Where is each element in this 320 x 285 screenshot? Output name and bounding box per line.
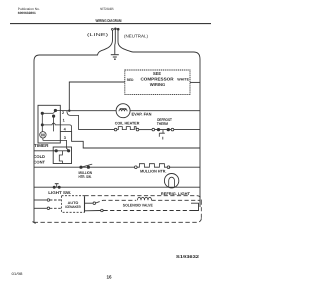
svg-text:M: M [41, 133, 45, 138]
svg-text:(LINE): (LINE) [87, 32, 109, 37]
connector [114, 128, 117, 131]
plug prong tips [111, 28, 119, 30]
svg-text:MULLION HTR.: MULLION HTR. [140, 170, 166, 174]
connector [152, 128, 155, 131]
connector [135, 166, 138, 169]
svg-text:WIRING DIAGRAM: WIRING DIAGRAM [96, 18, 122, 23]
svg-text:SOLENOID VALVE: SOLENOID VALVE [123, 203, 153, 207]
junction node [68, 110, 70, 112]
cold control box [53, 147, 71, 164]
wire T4 to neutral rail [60, 131, 200, 148]
wire thermostat to rail [174, 129, 200, 131]
evap fan line [69, 110, 200, 112]
svg-text:1: 1 [63, 119, 65, 123]
refrig light lamp [164, 174, 178, 188]
header rule [10, 23, 211, 25]
svg-text:COMPRESSOR: COMPRESSOR [141, 76, 174, 81]
solenoid valve coil L1 [138, 197, 152, 200]
connector [136, 128, 139, 131]
left rail end tick [33, 222, 36, 224]
svg-text:COLD: COLD [34, 154, 46, 159]
connector [171, 128, 174, 131]
svg-text:CONT: CONT [34, 160, 46, 165]
compressor box U1 (dashed: SEE COMPRESSOR WIRING) [125, 70, 190, 94]
evap fan motor [116, 104, 130, 118]
svg-text:(NEUTRAL): (NEUTRAL) [124, 34, 149, 39]
svg-text:6000632801: 6000632801 [18, 11, 36, 15]
coil heater element R1 [117, 127, 136, 130]
defrost thermostat body [159, 130, 165, 140]
light switch [53, 184, 60, 189]
svg-text:LIGHT SW.: LIGHT SW. [48, 190, 71, 195]
wire T2 to fan junction [55, 110, 69, 112]
ground [111, 55, 119, 60]
icemaker feed line 2 [34, 207, 62, 210]
defrost heater line left [79, 129, 115, 131]
wire WHITE compressor to neutral rail [190, 81, 200, 83]
svg-text:RED: RED [127, 78, 134, 82]
wire: ground prong down [114, 30, 117, 54]
solenoid return (dashed) [85, 203, 199, 212]
svg-text:THERM: THERM [157, 122, 168, 126]
wire RED feed to compressor [69, 82, 125, 111]
cold control switch [55, 150, 70, 152]
mullion heater element R2 [137, 164, 167, 168]
svg-text:EVAP. FAN: EVAP. FAN [132, 111, 152, 116]
timer contact to T4 drop [53, 116, 55, 131]
wire T1 [60, 125, 71, 131]
icemaker top dashed run to right corner [85, 196, 202, 219]
cold control actuator [59, 151, 62, 164]
timer motor M [40, 132, 61, 141]
defrost thermostat nodes [155, 128, 172, 130]
icemaker box (dashed) [62, 196, 85, 213]
solenoid valve wire to rail (dashed) [152, 199, 201, 201]
svg-text:16: 16 [107, 275, 113, 280]
mullion heater switch [80, 164, 92, 168]
solenoid valve feed (dashed) [85, 200, 137, 204]
icemaker feed line 1 [34, 199, 62, 202]
wire junction stub to heater line [67, 111, 79, 130]
timer motor branch [41, 113, 60, 131]
svg-text:SEE: SEE [153, 71, 161, 76]
svg-text:3: 3 [64, 136, 66, 140]
mullion line [34, 166, 200, 168]
timer switch pole [41, 109, 57, 117]
svg-text:WHITE: WHITE [177, 78, 189, 82]
bottom neutral dashed run [35, 218, 202, 222]
wire: line prong to left rail [34, 31, 113, 223]
connector [167, 166, 170, 169]
svg-text:COIL HEATER: COIL HEATER [115, 122, 140, 126]
svg-text:2: 2 [62, 111, 64, 115]
defrost timer box [38, 105, 60, 143]
wire rail to cold control [34, 150, 56, 152]
wire T3 to cold control [60, 140, 68, 149]
svg-text:ICEMAKER: ICEMAKER [65, 205, 81, 209]
svg-text:S193632: S193632 [176, 254, 200, 259]
svg-text:HTR. SW.: HTR. SW. [79, 175, 92, 179]
svg-text:MFF2314BS: MFF2314BS [100, 7, 113, 11]
refrig light line [34, 186, 200, 188]
svg-text:TIMER: TIMER [34, 143, 49, 148]
svg-text:01/98: 01/98 [12, 272, 23, 276]
wire [139, 129, 152, 131]
wire: neutral prong to right rail [118, 31, 200, 208]
svg-text:WIRING: WIRING [150, 82, 166, 87]
